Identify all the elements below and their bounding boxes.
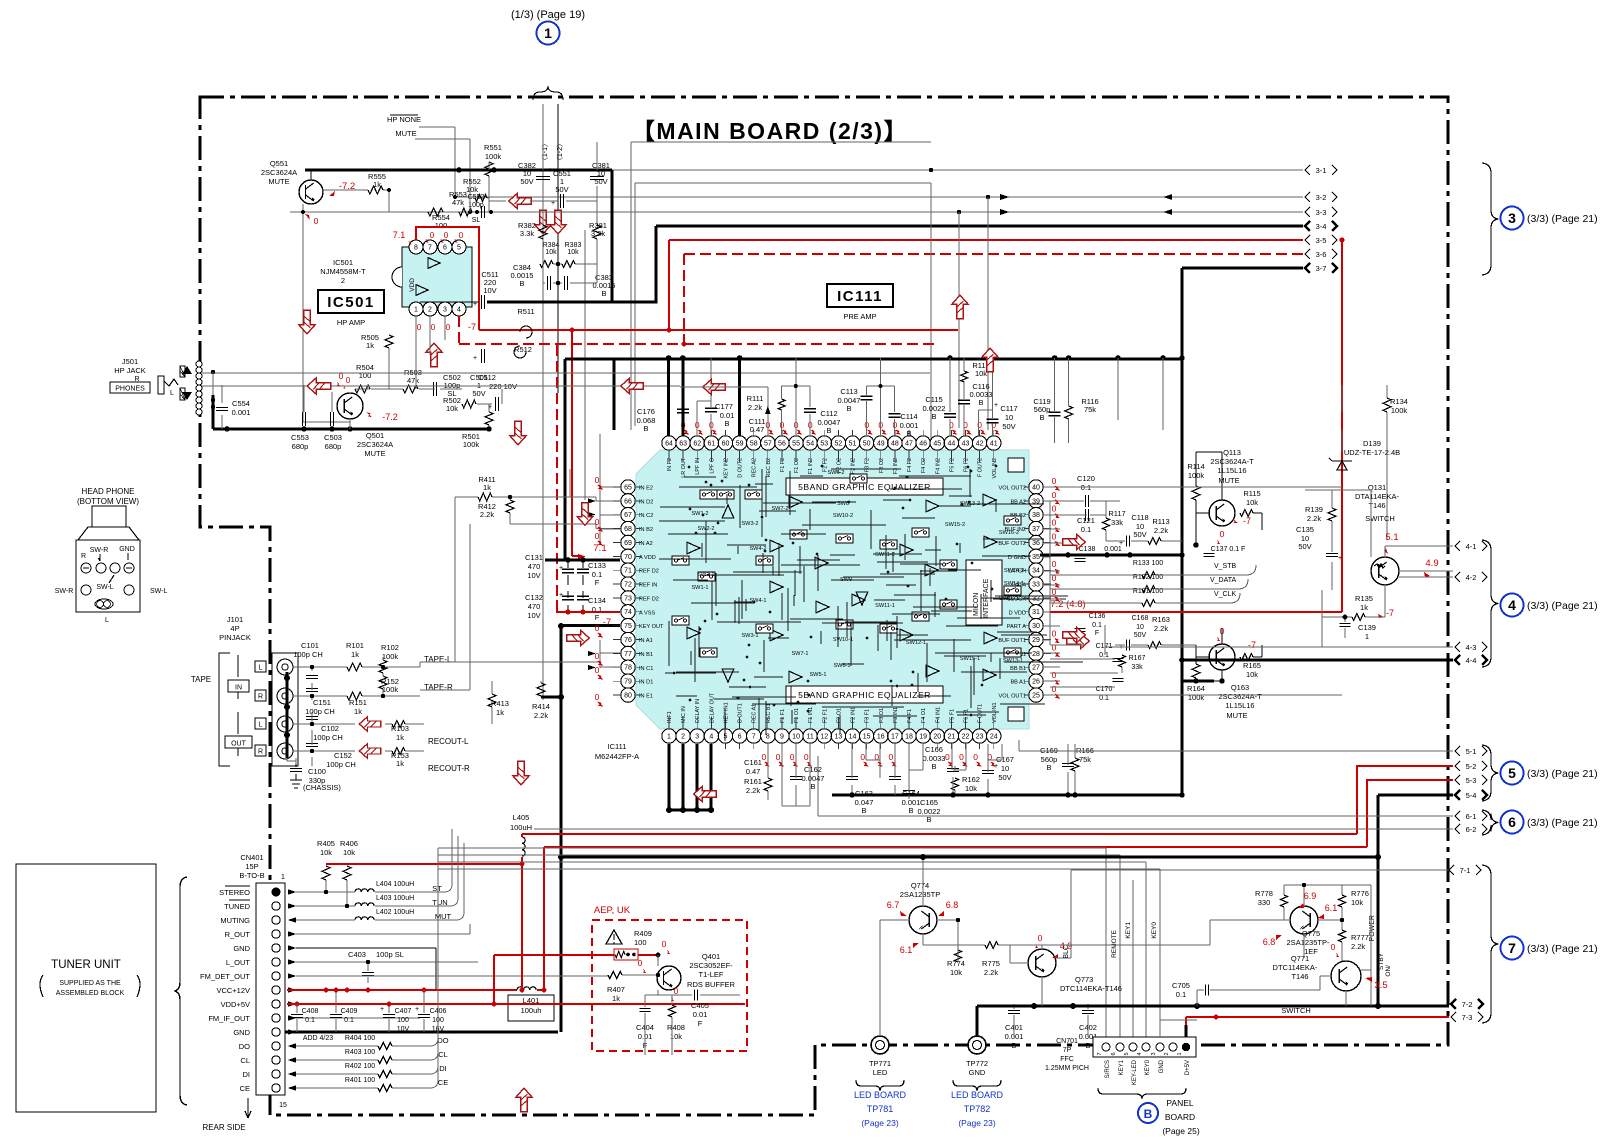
svg-text:3: 3 — [695, 733, 699, 740]
svg-text:0: 0 — [1052, 476, 1057, 486]
svg-text:0: 0 — [674, 986, 679, 996]
svg-text:25: 25 — [1032, 692, 1040, 699]
svg-text:L: L — [170, 390, 174, 397]
micon interface block — [966, 560, 1002, 625]
svg-text:73: 73 — [624, 595, 632, 602]
svg-text:0: 0 — [662, 939, 667, 949]
svg-text:100k: 100k — [382, 652, 399, 661]
wire 6-1 — [818, 756, 1453, 816]
transistor Q501 2SC3624A MUTE — [337, 393, 363, 419]
svg-text:100p CH: 100p CH — [326, 760, 356, 769]
svg-text:100: 100 — [359, 371, 372, 380]
svg-text:10k: 10k — [320, 848, 332, 857]
svg-text:MICON: MICON — [973, 593, 980, 616]
svg-text:B: B — [846, 404, 851, 413]
svg-text:R: R — [258, 749, 263, 756]
equalizer block bottom: 5BAND GRAPHIC EQUALIZER — [786, 686, 943, 703]
svg-text:40: 40 — [1032, 484, 1040, 491]
IC111 pin stubs — [613, 430, 1051, 749]
svg-text:IN E1: IN E1 — [639, 694, 653, 700]
svg-text:0: 0 — [973, 752, 978, 762]
capacitor C405 0.01 F — [695, 990, 698, 1001]
svg-text:F3 O2: F3 O2 — [879, 458, 885, 473]
red riser x544 — [543, 847, 545, 990]
svg-text:10k: 10k — [446, 404, 458, 413]
connector 4-2 — [1455, 572, 1460, 582]
svg-text:F1 IN2: F1 IN2 — [808, 458, 814, 474]
svg-text:R407: R407 — [607, 985, 625, 994]
svg-text:R135: R135 — [1355, 594, 1373, 603]
IC111 left pins 65..80 — [621, 480, 635, 494]
svg-text:7P: 7P — [1063, 1047, 1072, 1054]
svg-text:7: 7 — [752, 733, 756, 740]
switch boxes inside IC111 — [700, 490, 717, 499]
svg-text:SW14-2: SW14-2 — [1004, 568, 1024, 574]
svg-text:C503: C503 — [324, 433, 342, 442]
svg-text:R406: R406 — [340, 839, 358, 848]
svg-text:1k: 1k — [366, 341, 374, 350]
svg-text:6: 6 — [1111, 1052, 1117, 1055]
svg-text:(BOTTOM VIEW): (BOTTOM VIEW) — [77, 497, 139, 506]
IC111 bottom pins 1..24 — [662, 729, 676, 743]
svg-text:TAPE: TAPE — [191, 675, 211, 684]
svg-text:+: + — [380, 1006, 384, 1013]
svg-text:(3/3) (Page 21): (3/3) (Page 21) — [1527, 213, 1598, 225]
connector 4-3 — [1455, 642, 1460, 652]
svg-text:19: 19 — [919, 733, 927, 740]
svg-text:B: B — [826, 426, 831, 435]
connector 7-1 — [1449, 865, 1454, 875]
svg-text:F: F — [698, 1019, 703, 1028]
svg-text:B: B — [1039, 413, 1044, 422]
svg-text:F5 F1: F5 F1 — [949, 709, 955, 723]
svg-text:54: 54 — [806, 440, 814, 447]
svg-text:BLC: BLC — [1063, 945, 1070, 959]
svg-text:77: 77 — [624, 651, 632, 658]
wire l_out row — [296, 961, 478, 963]
svg-text:+: + — [473, 355, 477, 362]
svg-text:C163: C163 — [855, 789, 873, 798]
svg-text:12: 12 — [820, 733, 828, 740]
svg-text:T1-LEF: T1-LEF — [698, 970, 723, 979]
svg-text:27: 27 — [1032, 665, 1040, 672]
wire r134 d139 — [1342, 385, 1387, 540]
svg-text:4-3: 4-3 — [1466, 643, 1477, 652]
svg-text:(1/3) (Page 19): (1/3) (Page 19) — [511, 9, 585, 21]
circled 3 page ref — [1501, 207, 1524, 230]
svg-text:7: 7 — [1097, 1052, 1103, 1055]
svg-text:F2 O1: F2 O1 — [836, 708, 842, 723]
svg-text:Q401: Q401 — [702, 952, 720, 961]
CN401 pin 8 VCC+12V — [272, 986, 280, 994]
wire tp771 up — [879, 920, 881, 1036]
junction dots on bus — [957, 210, 961, 214]
connector 3-6 — [1305, 249, 1310, 259]
svg-text:R: R — [81, 553, 86, 560]
wires r117 c118 r113 — [1106, 501, 1182, 541]
svg-text:0.47: 0.47 — [746, 767, 761, 776]
pin 6 IC501 — [438, 240, 452, 254]
red wire vdd row — [287, 1003, 745, 1005]
svg-text:SW-L: SW-L — [150, 588, 167, 595]
svg-text:2SC3624A-T: 2SC3624A-T — [1210, 457, 1254, 466]
svg-text:0: 0 — [595, 475, 600, 485]
wire drop from 3-2 — [987, 197, 989, 430]
svg-text:F3 IN1: F3 IN1 — [893, 707, 899, 723]
svg-text:49: 49 — [877, 440, 885, 447]
svg-text:SL: SL — [472, 217, 481, 224]
svg-text:0: 0 — [889, 752, 894, 762]
svg-text:6.7: 6.7 — [887, 900, 900, 910]
svg-text:5-2: 5-2 — [1466, 762, 1477, 771]
svg-text:SUPPLIED AS THE: SUPPLIED AS THE — [59, 980, 121, 987]
small boxed R (tape in) — [255, 690, 266, 701]
svg-text:C102: C102 — [321, 724, 339, 733]
svg-text:SW12-1: SW12-1 — [906, 640, 926, 646]
vol boxes corners IC111 — [1008, 458, 1024, 472]
wire x1118 x1163 drops — [1118, 358, 1163, 430]
arrow up bottom mid — [516, 1088, 532, 1112]
arrow right at pin76 — [567, 630, 590, 645]
svg-text:POWER: POWER — [1369, 915, 1376, 941]
circled 6 page ref — [1501, 811, 1524, 834]
svg-text:0: 0 — [459, 231, 464, 240]
board outline (dash-dot border of MAIN BOARD) — [200, 97, 1448, 1115]
svg-text:34: 34 — [1032, 568, 1040, 575]
svg-text:C112: C112 — [820, 409, 837, 418]
svg-text:63: 63 — [679, 440, 687, 447]
IC111 top pins 64..41 — [662, 436, 676, 450]
svg-text:B: B — [978, 398, 983, 407]
arrowheads on bus 3-2 3-3 — [1000, 194, 1172, 200]
wire Q551 base — [303, 204, 350, 422]
svg-text:MUTING: MUTING — [220, 916, 250, 925]
svg-text:66: 66 — [624, 498, 632, 505]
svg-text:C176: C176 — [637, 407, 655, 416]
wires below IC111 — [768, 744, 1075, 806]
connector 6-1 — [1455, 811, 1460, 821]
svg-text:4-4: 4-4 — [1466, 656, 1477, 665]
svg-text:GND: GND — [119, 546, 135, 553]
arrow on jack L line — [621, 378, 644, 393]
svg-text:B-TO-B: B-TO-B — [239, 871, 264, 880]
ic IC111 M62442FP-A body (cyan) — [636, 450, 1029, 729]
arrow down below pin1 — [513, 761, 529, 785]
transistor Q163 mute — [1209, 644, 1235, 670]
svg-text:3.3k: 3.3k — [520, 229, 534, 238]
svg-text:0: 0 — [595, 623, 600, 633]
svg-text:CN701: CN701 — [1056, 1038, 1078, 1045]
svg-text:D OUT1: D OUT1 — [738, 703, 744, 723]
svg-text:SW3-2: SW3-2 — [741, 521, 758, 527]
svg-text:VCC+12V: VCC+12V — [216, 986, 250, 995]
boxed label IN — [228, 680, 249, 692]
svg-text:F6 F1: F6 F1 — [964, 709, 970, 723]
svg-text:4: 4 — [709, 733, 713, 740]
svg-text:3: 3 — [1151, 1052, 1157, 1055]
connector 3-1 — [1305, 165, 1310, 175]
svg-text:0.01: 0.01 — [693, 1010, 708, 1019]
CN401 pin 15 CE — [272, 1084, 280, 1092]
thick KEY OUT pin75 wire — [541, 624, 620, 1032]
connector 7-2 (thick) — [1451, 999, 1456, 1009]
boxed label IC501 — [318, 290, 384, 313]
svg-text:C408: C408 — [302, 1008, 319, 1015]
svg-text:BOARD: BOARD — [1165, 1112, 1195, 1122]
svg-text:55: 55 — [792, 440, 800, 447]
svg-text:2.2k: 2.2k — [746, 786, 760, 795]
svg-text:1k: 1k — [612, 994, 620, 1003]
svg-text:2SC3624A: 2SC3624A — [261, 168, 297, 177]
svg-text:7-2: 7-2 — [1462, 1000, 1473, 1009]
svg-text:DELAY OUT: DELAY OUT — [709, 692, 715, 723]
svg-text:V_DATA: V_DATA — [1210, 577, 1237, 584]
brace LED board TP782 — [953, 1080, 1001, 1091]
svg-text:BB B1: BB B1 — [1010, 666, 1026, 672]
svg-text:0: 0 — [446, 323, 451, 332]
svg-text:4.9: 4.9 — [1425, 558, 1438, 569]
svg-text:0.1: 0.1 — [344, 1017, 354, 1024]
svg-text:D+5V: D+5V — [1185, 1060, 1191, 1075]
red wire 5-3 — [544, 780, 1453, 847]
svg-text:0.1: 0.1 — [1092, 622, 1102, 629]
red drop to pin70 A VDD — [572, 555, 578, 557]
small boxed L (tape in) — [255, 661, 266, 672]
svg-text:IC501: IC501 — [333, 258, 353, 267]
pin 4 IC501 — [452, 302, 466, 316]
svg-text:R775: R775 — [982, 959, 1000, 968]
svg-text:D139: D139 — [1363, 439, 1381, 448]
svg-text:TP782: TP782 — [964, 1104, 991, 1114]
svg-text:2SC3624A: 2SC3624A — [357, 440, 393, 449]
wire 1-1 vertical — [542, 104, 544, 700]
svg-text:(3/3) (Page 21): (3/3) (Page 21) — [1527, 943, 1598, 955]
wire cn701 gnd — [1160, 1020, 1197, 1037]
svg-text:【MAIN BOARD (2/3)】: 【MAIN BOARD (2/3)】 — [632, 118, 908, 144]
svg-text:+: + — [548, 167, 552, 174]
svg-text:R551: R551 — [484, 143, 502, 152]
svg-text:0.1: 0.1 — [1099, 695, 1109, 702]
connector 4-1 — [1455, 541, 1460, 551]
svg-text:-7.2: -7.2 — [382, 412, 398, 422]
wires r111 c111 group — [782, 358, 810, 436]
svg-text:23: 23 — [976, 733, 984, 740]
arrow into board 1-2 — [550, 210, 566, 234]
thick bus above IC111 y358 — [565, 358, 1182, 361]
svg-text:31: 31 — [1032, 609, 1040, 616]
capacitor C407 100 10V — [383, 1015, 395, 1018]
svg-text:0: 0 — [1052, 587, 1057, 597]
svg-text:F2 IN1: F2 IN1 — [851, 707, 857, 723]
svg-text:0: 0 — [776, 752, 781, 762]
svg-text:FM_IF_OUT: FM_IF_OUT — [208, 1014, 250, 1023]
svg-text:KEY0: KEY0 — [1145, 1059, 1151, 1075]
thick wire 5-4 — [1378, 795, 1453, 1004]
connector 3-3 — [1305, 207, 1310, 217]
thick stubs pins1-4 — [669, 744, 711, 810]
red supply 7.2 wire to pin31 — [1050, 611, 1342, 613]
wire 7-1 — [1071, 869, 1449, 871]
thick ground bus under IC501 — [213, 428, 489, 431]
svg-text:10: 10 — [792, 733, 800, 740]
svg-text:15: 15 — [279, 1102, 287, 1109]
connector CN701 body — [1093, 1037, 1196, 1057]
svg-text:0: 0 — [1052, 490, 1057, 500]
svg-text:CL: CL — [240, 1056, 250, 1065]
CN401 pin 9 VDD+5V — [272, 1000, 280, 1008]
jack contacts — [196, 361, 202, 367]
svg-text:5BAND GRAPHIC EQUALIZER: 5BAND GRAPHIC EQUALIZER — [798, 690, 931, 700]
svg-text:0: 0 — [959, 752, 964, 762]
svg-text:LPF O: LPF O — [709, 458, 715, 474]
svg-text:L403 100uH: L403 100uH — [376, 895, 414, 902]
svg-text:DTC114EKA-: DTC114EKA- — [1273, 963, 1318, 972]
svg-text:10k: 10k — [975, 369, 987, 378]
svg-text:7.1: 7.1 — [393, 230, 406, 240]
equalizer block top: 5BAND GRAPHIC EQUALIZER — [786, 478, 943, 495]
pin 2 IC501 — [423, 302, 437, 316]
svg-text:R115: R115 — [1243, 489, 1260, 498]
svg-text:-7: -7 — [1386, 608, 1394, 618]
capacitor C406 100 16V — [418, 1015, 430, 1018]
svg-text:0: 0 — [945, 752, 950, 762]
svg-text:10: 10 — [1005, 413, 1013, 422]
svg-text:LPF IN: LPF IN — [695, 458, 701, 475]
red riser junctions — [667, 328, 672, 333]
svg-text:2.2k: 2.2k — [534, 711, 548, 720]
svg-text:100k: 100k — [463, 440, 480, 449]
arrow left below pin6 — [694, 786, 717, 801]
svg-text:R163: R163 — [1152, 615, 1170, 624]
svg-text:38: 38 — [1032, 512, 1040, 519]
inner junction dots of IC111 — [769, 611, 772, 614]
svg-text:C151: C151 — [313, 698, 331, 707]
svg-text:SW10-2: SW10-2 — [833, 513, 853, 519]
brace panel board — [1098, 1088, 1186, 1099]
CN401 pin 10 FM_IF_OUT — [272, 1014, 280, 1022]
svg-text:5.1: 5.1 — [1385, 532, 1398, 543]
wires q773 — [958, 945, 1071, 1006]
svg-text:10V: 10V — [527, 571, 540, 580]
transistor Q771 DTC114EKA-T146 — [1331, 961, 1361, 991]
svg-text:5: 5 — [457, 244, 461, 251]
connector 3-2 — [1305, 192, 1310, 202]
svg-text:28: 28 — [1032, 651, 1040, 658]
CN401 pin 13 CL — [272, 1056, 280, 1064]
svg-text:SW16-2: SW16-2 — [999, 530, 1019, 536]
wires c168 r163 — [1050, 644, 1196, 646]
svg-text:10k: 10k — [466, 185, 478, 194]
svg-text:REF IN: REF IN — [639, 583, 657, 589]
svg-text:10: 10 — [1001, 764, 1009, 773]
svg-text:45: 45 — [933, 440, 941, 447]
svg-text:100uH: 100uH — [510, 823, 532, 832]
svg-text:Q551: Q551 — [270, 159, 288, 168]
svg-text:SWITCH: SWITCH — [1281, 1006, 1311, 1015]
svg-text:C138: C138 — [1079, 546, 1096, 553]
svg-text:C165: C165 — [920, 798, 938, 807]
connector 5-4 (thick) — [1455, 790, 1460, 800]
svg-text:R778: R778 — [1255, 889, 1273, 898]
CN701 pin 6 KEY1 — [1116, 1043, 1124, 1051]
svg-text:71: 71 — [624, 568, 632, 575]
svg-text:5BAND GRAPHIC EQUALIZER: 5BAND GRAPHIC EQUALIZER — [798, 482, 931, 492]
svg-text:CE: CE — [438, 1078, 448, 1087]
CN701 pin 1 D+5V — [1182, 1043, 1190, 1051]
CN401 pin 4 R_OUT — [272, 930, 280, 938]
svg-text:TAPE-R: TAPE-R — [424, 683, 453, 692]
svg-text:SW6-2: SW6-2 — [827, 470, 844, 476]
svg-text:IN: IN — [235, 685, 242, 692]
connector 5-3 (red) — [1455, 775, 1460, 785]
svg-text:75k: 75k — [1084, 405, 1096, 414]
svg-text:58: 58 — [750, 440, 758, 447]
svg-text:3-7: 3-7 — [1316, 264, 1327, 273]
svg-text:TUNED: TUNED — [224, 902, 250, 911]
wires v_stb v_data v_clk — [1050, 565, 1256, 603]
svg-text:0: 0 — [1331, 942, 1336, 952]
svg-text:R151: R151 — [349, 698, 367, 707]
svg-text:R113: R113 — [1152, 517, 1169, 526]
svg-text:C133: C133 — [588, 561, 606, 570]
svg-text:100p SL: 100p SL — [376, 950, 404, 959]
svg-text:0: 0 — [804, 752, 809, 762]
svg-text:43: 43 — [962, 440, 970, 447]
wire 3-6 bus (red dashed) — [684, 253, 1303, 255]
arrow on jack line — [307, 378, 331, 394]
wire drop from 3-1 — [930, 183, 932, 443]
svg-text:MUTE: MUTE — [395, 129, 416, 138]
svg-text:SW15-2: SW15-2 — [945, 522, 965, 528]
svg-text:C407: C407 — [395, 1008, 412, 1015]
tape in to right (gray) — [420, 661, 455, 663]
connector 3-5 — [1305, 235, 1310, 245]
svg-text:5: 5 — [1508, 765, 1516, 781]
svg-text:BB A2: BB A2 — [1010, 499, 1026, 505]
svg-text:C162: C162 — [804, 765, 822, 774]
connector 3-7 — [1305, 263, 1310, 273]
svg-text:D VDD: D VDD — [1009, 610, 1026, 616]
wires stereo tuned muting rows — [296, 829, 464, 920]
wires q774 — [880, 857, 985, 1037]
svg-text:10k: 10k — [1246, 498, 1258, 507]
svg-text:10k: 10k — [545, 249, 557, 256]
wire 3-3 bus — [290, 211, 1303, 213]
svg-text:R401 100: R401 100 — [345, 1077, 375, 1084]
svg-text:V_STB: V_STB — [1214, 563, 1237, 570]
thick d+5v stub — [1185, 1025, 1188, 1037]
svg-text:75k: 75k — [1079, 755, 1091, 764]
svg-text:56: 56 — [778, 440, 786, 447]
svg-text:2SC3052EF-: 2SC3052EF- — [689, 961, 733, 970]
svg-text:0: 0 — [1052, 504, 1057, 514]
svg-text:60: 60 — [722, 440, 730, 447]
svg-text:HP NONE: HP NONE — [387, 115, 421, 124]
transistor Q401 RDS buffer — [657, 966, 681, 990]
svg-text:R162: R162 — [962, 775, 980, 784]
svg-text:DI: DI — [439, 1064, 447, 1073]
svg-text:HP AMP: HP AMP — [337, 318, 365, 327]
svg-text:11: 11 — [807, 733, 814, 740]
svg-text:2: 2 — [428, 306, 432, 313]
svg-text:KEY-LED: KEY-LED — [1132, 1059, 1138, 1085]
svg-text:0: 0 — [314, 216, 319, 226]
svg-text:SW10-1: SW10-1 — [833, 637, 853, 643]
svg-text:SW-R: SW-R — [90, 547, 109, 554]
svg-text:IN C2: IN C2 — [639, 513, 653, 519]
svg-text:Q501: Q501 — [366, 431, 384, 440]
svg-text:UDZ-TE-17-2.4B: UDZ-TE-17-2.4B — [1344, 448, 1400, 457]
